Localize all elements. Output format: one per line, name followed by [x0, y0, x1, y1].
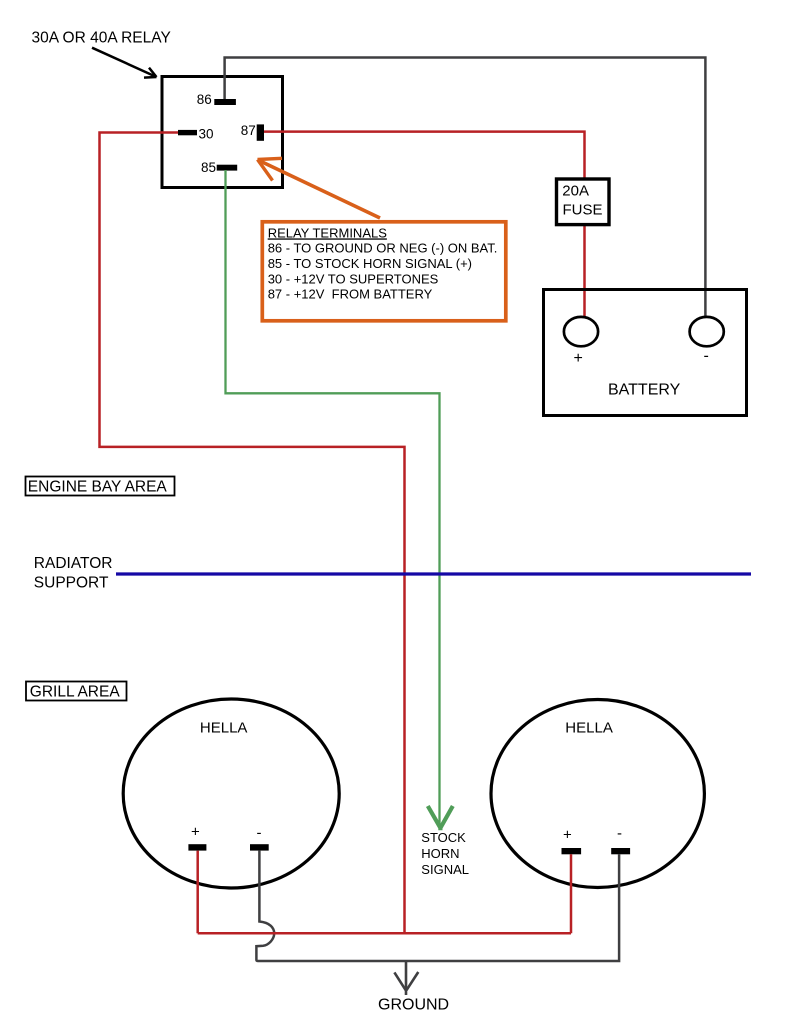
svg-text:HORN: HORN [421, 846, 459, 861]
right horn circle [491, 700, 704, 888]
left horn minus terminal bar [250, 844, 269, 850]
fuse box [557, 179, 610, 225]
svg-text:GROUND: GROUND [378, 996, 449, 1013]
svg-text:STOCK: STOCK [421, 830, 466, 845]
svg-text:+: + [563, 827, 572, 844]
svg-text:+: + [574, 350, 583, 367]
svg-text:+: + [191, 824, 200, 841]
svg-text:85 - TO STOCK HORN SIGNAL (+): 85 - TO STOCK HORN SIGNAL (+) [268, 256, 472, 271]
svg-text:HELLA: HELLA [200, 720, 248, 737]
left horn plus terminal bar [188, 844, 206, 850]
svg-text:30 - +12V TO SUPERTONES: 30 - +12V TO SUPERTONES [268, 271, 439, 286]
svg-text:-: - [704, 348, 709, 365]
svg-text:FUSE: FUSE [563, 201, 603, 218]
svg-text:30A OR 40A RELAY: 30A OR 40A RELAY [32, 30, 171, 47]
wire: dark from left horn minus with hop over red, down to ground run, right, up to right horn minus [256, 851, 619, 961]
wire: green from relay 85 down, right, down (stock horn signal) [226, 170, 440, 824]
wire: gray from relay 86 up, across, down to battery negative [225, 58, 706, 318]
battery positive terminal circle [564, 317, 598, 346]
relay pin 30 terminal bar [178, 130, 197, 135]
relay box [162, 77, 283, 188]
svg-text:SIGNAL: SIGNAL [421, 862, 469, 877]
green arrowhead [428, 806, 453, 830]
left horn circle [123, 699, 339, 888]
battery negative terminal circle [690, 317, 724, 346]
svg-text:86: 86 [197, 92, 212, 107]
wire: red from fuse bottom down to battery positive [583, 225, 586, 318]
annotation arrow to relay [92, 48, 157, 78]
engine bay area label box [26, 477, 175, 496]
svg-text:RELAY TERMINALS: RELAY TERMINALS [268, 225, 388, 240]
svg-text:85: 85 [201, 160, 216, 175]
orange callout box: RELAY TERMINALS [262, 222, 506, 321]
svg-text:20A: 20A [562, 183, 589, 200]
grill area label box [26, 682, 127, 701]
svg-text:30: 30 [199, 127, 214, 142]
relay pin 85 terminal bar [217, 165, 238, 171]
svg-text:HELLA: HELLA [565, 720, 613, 737]
svg-text:87: 87 [241, 123, 256, 138]
wire: red from relay 87 right then down to fuse [264, 132, 585, 178]
svg-text:SUPPORT: SUPPORT [34, 574, 109, 591]
battery box [544, 290, 747, 416]
wire: red bottom run [198, 932, 571, 935]
svg-text:87 - +12V FROM BATTERY: 87 - +12V FROM BATTERY [268, 287, 433, 302]
svg-text:-: - [617, 825, 622, 842]
wire: red from left horn plus down to bottom run [196, 851, 199, 934]
svg-text:GRILL AREA: GRILL AREA [30, 684, 121, 701]
wire: red up to right horn plus [570, 854, 573, 933]
ground arrowhead [394, 972, 418, 990]
svg-text:BATTERY: BATTERY [608, 382, 681, 399]
relay pin 86 terminal bar [214, 99, 236, 105]
svg-text:ENGINE BAY AREA: ENGINE BAY AREA [28, 478, 168, 495]
svg-text:86 - TO GROUND OR NEG (-) ON B: 86 - TO GROUND OR NEG (-) ON BAT. [268, 241, 498, 256]
right horn plus terminal bar [562, 848, 582, 854]
svg-text:-: - [257, 825, 262, 842]
wire: red from relay 30 left, down, across, down to bottom junction [100, 133, 405, 935]
orange callout arrow to relay terminals [259, 161, 380, 219]
radiator support blue line [116, 572, 751, 575]
svg-text:RADIATOR: RADIATOR [34, 555, 113, 572]
relay pin 87 terminal bar [257, 124, 264, 140]
ground arrow stem [405, 961, 408, 995]
right horn minus terminal bar [611, 848, 630, 854]
